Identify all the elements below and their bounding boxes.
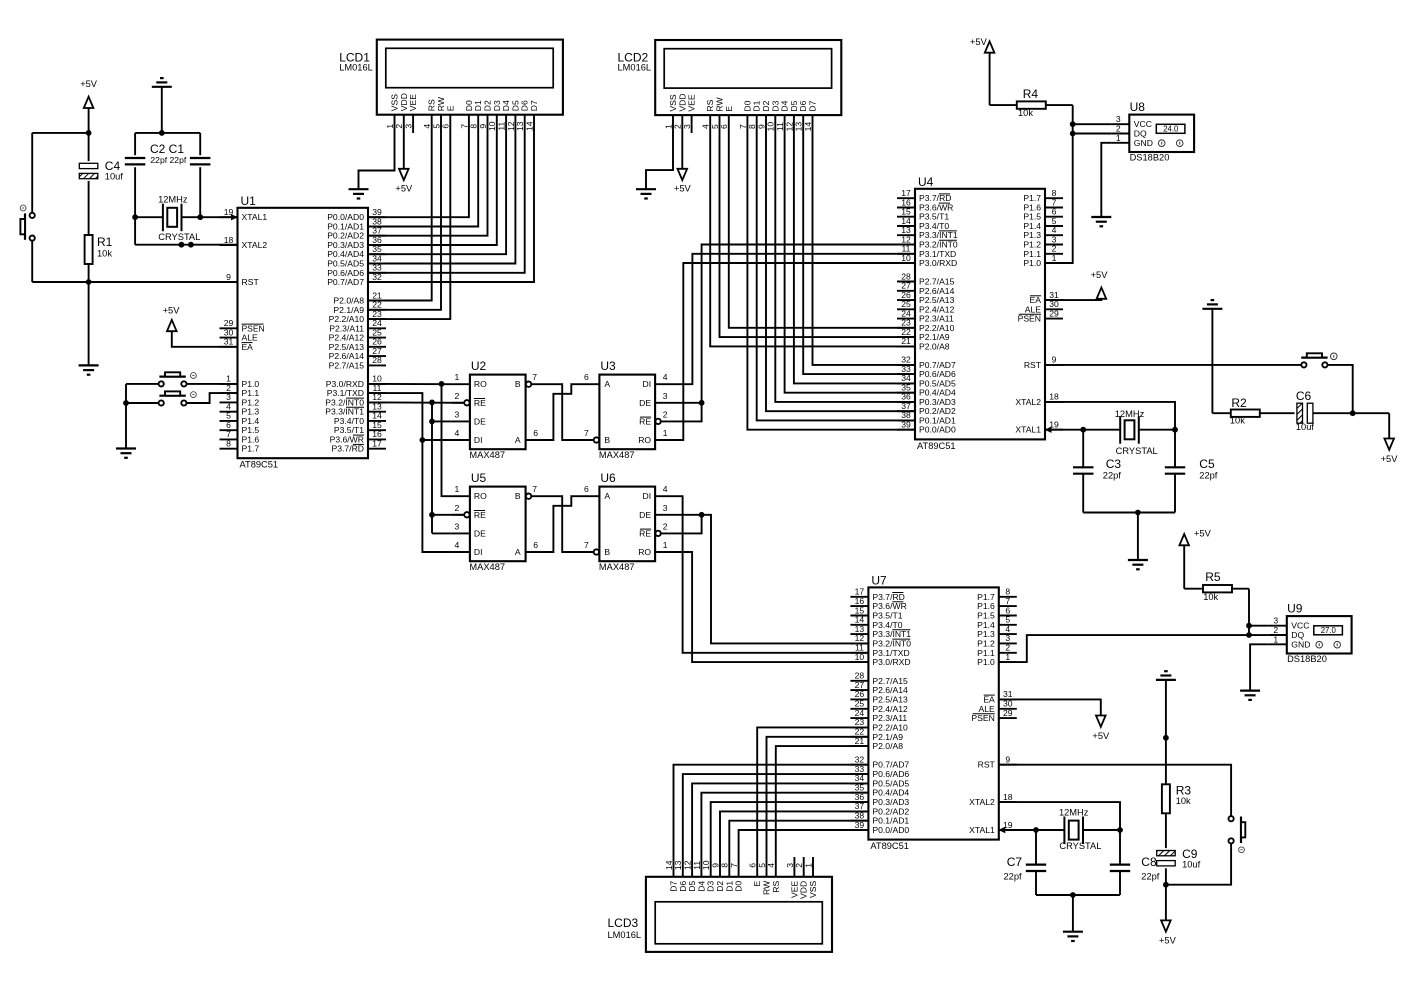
- svg-text:U8: U8: [1130, 100, 1146, 114]
- svg-text:18: 18: [1003, 792, 1013, 802]
- svg-text:22pf: 22pf: [1141, 871, 1160, 881]
- svg-text:14: 14: [664, 860, 674, 870]
- svg-text:14: 14: [803, 122, 813, 132]
- svg-text:3: 3: [404, 124, 414, 129]
- svg-text:E: E: [724, 106, 734, 112]
- svg-text:R4: R4: [1023, 87, 1039, 101]
- svg-text:28: 28: [372, 355, 382, 365]
- svg-text:+5V: +5V: [674, 184, 692, 194]
- svg-text:22pf 22pf: 22pf 22pf: [150, 155, 186, 165]
- svg-text:10k: 10k: [97, 249, 112, 259]
- svg-text:B: B: [604, 547, 610, 557]
- svg-text:XTAL2: XTAL2: [969, 797, 995, 807]
- svg-text:1: 1: [663, 428, 668, 438]
- svg-text:3: 3: [455, 521, 460, 531]
- svg-text:22pf: 22pf: [1199, 471, 1218, 481]
- svg-text:RST: RST: [978, 760, 996, 770]
- svg-text:RST: RST: [242, 277, 260, 287]
- svg-text:P1.0: P1.0: [977, 657, 995, 667]
- svg-text:P0.7/AD7: P0.7/AD7: [327, 277, 364, 287]
- svg-text:29: 29: [1003, 708, 1013, 718]
- svg-text:10uf: 10uf: [105, 171, 124, 181]
- svg-text:13: 13: [673, 860, 683, 870]
- svg-text:MAX487: MAX487: [469, 450, 505, 460]
- svg-text:P0.0/AD0: P0.0/AD0: [919, 425, 956, 435]
- svg-text:6: 6: [533, 428, 538, 438]
- svg-text:C5: C5: [1199, 457, 1215, 471]
- svg-text:RO: RO: [474, 491, 487, 501]
- svg-text:8: 8: [720, 863, 730, 868]
- svg-text:XTAL1: XTAL1: [969, 825, 995, 835]
- svg-text:+5V: +5V: [163, 305, 181, 315]
- svg-text:+5V: +5V: [80, 79, 98, 89]
- svg-text:11: 11: [692, 861, 702, 870]
- svg-text:9: 9: [1052, 355, 1057, 365]
- svg-text:+5V: +5V: [1381, 454, 1399, 464]
- svg-text:LM016L: LM016L: [339, 63, 373, 73]
- svg-text:XTAL2: XTAL2: [242, 240, 268, 250]
- svg-text:3: 3: [455, 409, 460, 419]
- svg-text:A: A: [515, 547, 521, 557]
- svg-text:GND: GND: [1134, 138, 1153, 148]
- svg-text:P2.0/A8: P2.0/A8: [919, 341, 950, 351]
- svg-text:DE: DE: [639, 510, 651, 520]
- svg-text:VEE: VEE: [408, 94, 418, 111]
- svg-text:U9: U9: [1287, 602, 1303, 616]
- svg-text:10k: 10k: [1203, 592, 1218, 602]
- svg-text:P1.7: P1.7: [242, 444, 260, 454]
- svg-text:CRYSTAL: CRYSTAL: [1059, 841, 1101, 851]
- svg-text:U7: U7: [871, 573, 887, 587]
- svg-text:17: 17: [372, 439, 382, 449]
- svg-text:D0: D0: [734, 881, 744, 892]
- svg-text:2: 2: [455, 391, 460, 401]
- svg-text:LM016L: LM016L: [608, 930, 642, 940]
- svg-text:10k: 10k: [1230, 415, 1245, 425]
- svg-text:3: 3: [663, 391, 668, 401]
- svg-text:+5V: +5V: [1091, 270, 1109, 280]
- svg-text:AT89C51: AT89C51: [917, 441, 956, 451]
- svg-text:+5V: +5V: [395, 184, 413, 194]
- svg-text:A: A: [604, 491, 610, 501]
- svg-text:MAX487: MAX487: [469, 562, 505, 572]
- svg-text:P2.0/A8: P2.0/A8: [872, 741, 903, 751]
- svg-text:22pf: 22pf: [1103, 471, 1122, 481]
- svg-text:10k: 10k: [1176, 796, 1191, 806]
- svg-text:D7: D7: [529, 100, 539, 111]
- svg-text:10: 10: [701, 860, 711, 870]
- svg-text:VSS: VSS: [808, 881, 818, 898]
- svg-text:2: 2: [794, 863, 804, 868]
- svg-text:XTAL1: XTAL1: [242, 212, 268, 222]
- svg-text:10uf: 10uf: [1182, 860, 1201, 870]
- svg-text:RW: RW: [762, 880, 772, 895]
- svg-text:U4: U4: [918, 175, 934, 189]
- svg-text:C8: C8: [1141, 855, 1157, 869]
- svg-text:P1.0: P1.0: [1023, 258, 1041, 268]
- svg-text:DE: DE: [639, 398, 651, 408]
- svg-text:6: 6: [441, 124, 451, 129]
- svg-text:U3: U3: [600, 359, 616, 373]
- svg-text:D7: D7: [669, 881, 679, 892]
- svg-text:6: 6: [584, 372, 589, 382]
- svg-text:RST: RST: [1024, 360, 1042, 370]
- svg-text:D7: D7: [808, 100, 818, 111]
- svg-text:+5V: +5V: [1159, 935, 1177, 945]
- svg-text:P0.0/AD0: P0.0/AD0: [872, 825, 909, 835]
- svg-text:AT89C51: AT89C51: [240, 460, 279, 470]
- svg-text:RE: RE: [474, 510, 486, 520]
- svg-text:4: 4: [455, 428, 460, 438]
- svg-text:A: A: [604, 379, 610, 389]
- svg-text:2: 2: [663, 521, 668, 531]
- svg-text:DI: DI: [643, 491, 652, 501]
- svg-text:8: 8: [226, 439, 231, 449]
- svg-text:4: 4: [455, 540, 460, 550]
- svg-text:R1: R1: [97, 235, 113, 249]
- svg-text:C3: C3: [1106, 457, 1122, 471]
- svg-text:LCD3: LCD3: [608, 916, 639, 930]
- svg-text:RE: RE: [639, 416, 651, 426]
- svg-text:XTAL2: XTAL2: [1015, 397, 1041, 407]
- svg-text:VDD: VDD: [799, 881, 809, 899]
- svg-text:P3.0/RXD: P3.0/RXD: [919, 258, 957, 268]
- svg-text:A: A: [515, 435, 521, 445]
- svg-text:18: 18: [224, 235, 234, 245]
- svg-text:D4: D4: [696, 881, 706, 892]
- svg-text:GND: GND: [1291, 639, 1310, 649]
- svg-text:R5: R5: [1205, 570, 1221, 584]
- svg-text:6: 6: [748, 863, 758, 868]
- svg-text:U5: U5: [471, 471, 487, 485]
- svg-text:DS18B20: DS18B20: [1130, 152, 1170, 162]
- svg-text:9: 9: [710, 863, 720, 868]
- svg-text:AT89C51: AT89C51: [870, 841, 909, 851]
- svg-text:3: 3: [785, 863, 795, 868]
- svg-text:4: 4: [663, 372, 668, 382]
- svg-text:B: B: [515, 491, 521, 501]
- svg-text:RE: RE: [639, 528, 651, 538]
- svg-text:C7: C7: [1007, 855, 1023, 869]
- svg-text:22pf: 22pf: [1004, 871, 1023, 881]
- svg-text:EA: EA: [242, 342, 254, 352]
- svg-text:24.0: 24.0: [1163, 125, 1179, 134]
- svg-text:CRYSTAL: CRYSTAL: [158, 232, 200, 242]
- svg-text:7: 7: [729, 863, 739, 868]
- svg-text:VEE: VEE: [687, 94, 697, 111]
- svg-text:XTAL1: XTAL1: [1015, 425, 1041, 435]
- svg-text:3: 3: [682, 124, 692, 129]
- svg-text:7: 7: [532, 484, 537, 494]
- svg-text:7: 7: [532, 372, 537, 382]
- svg-text:2: 2: [663, 409, 668, 419]
- svg-text:RO: RO: [474, 379, 487, 389]
- svg-text:VEE: VEE: [789, 881, 799, 898]
- svg-text:1: 1: [803, 863, 813, 868]
- svg-text:1: 1: [1273, 634, 1278, 644]
- svg-text:29: 29: [1049, 308, 1059, 318]
- svg-text:DE: DE: [474, 528, 486, 538]
- svg-text:MAX487: MAX487: [599, 450, 635, 460]
- svg-text:U1: U1: [241, 194, 257, 208]
- svg-text:6: 6: [719, 124, 729, 129]
- svg-text:1: 1: [663, 540, 668, 550]
- svg-text:7: 7: [584, 540, 589, 550]
- svg-text:E: E: [752, 881, 762, 887]
- svg-text:P3.7/RD: P3.7/RD: [332, 444, 364, 454]
- svg-text:12MHz: 12MHz: [158, 195, 188, 205]
- svg-text:RE: RE: [474, 398, 486, 408]
- svg-text:10uf: 10uf: [1296, 422, 1315, 432]
- svg-text:P3.0/RXD: P3.0/RXD: [872, 657, 910, 667]
- svg-text:1: 1: [455, 484, 460, 494]
- svg-text:PSEN: PSEN: [1018, 314, 1041, 324]
- svg-text:12MHz: 12MHz: [1059, 808, 1089, 818]
- svg-text:PSEN: PSEN: [971, 713, 994, 723]
- svg-text:CRYSTAL: CRYSTAL: [1116, 446, 1158, 456]
- svg-text:12MHz: 12MHz: [1115, 409, 1145, 419]
- svg-text:2: 2: [455, 503, 460, 513]
- svg-text:C6: C6: [1296, 389, 1312, 403]
- svg-text:RO: RO: [638, 435, 651, 445]
- svg-text:C2 C1: C2 C1: [150, 142, 184, 156]
- svg-text:5: 5: [757, 863, 767, 868]
- svg-text:RO: RO: [638, 547, 651, 557]
- svg-text:1: 1: [1005, 652, 1010, 662]
- svg-text:3: 3: [663, 503, 668, 513]
- svg-text:E: E: [445, 105, 455, 111]
- svg-text:DI: DI: [474, 547, 483, 557]
- svg-text:DI: DI: [474, 435, 483, 445]
- svg-text:R2: R2: [1231, 396, 1247, 410]
- svg-text:U6: U6: [600, 471, 616, 485]
- svg-text:+5V: +5V: [1092, 731, 1110, 741]
- svg-text:MAX487: MAX487: [599, 562, 635, 572]
- svg-text:27.0: 27.0: [1321, 626, 1337, 635]
- svg-text:LM016L: LM016L: [618, 63, 652, 73]
- svg-text:9: 9: [226, 272, 231, 282]
- svg-text:4: 4: [663, 484, 668, 494]
- svg-text:B: B: [515, 379, 521, 389]
- svg-text:6: 6: [584, 484, 589, 494]
- svg-text:P2.7/A15: P2.7/A15: [329, 360, 365, 370]
- svg-text:7: 7: [584, 428, 589, 438]
- svg-text:1: 1: [455, 372, 460, 382]
- svg-text:+5V: +5V: [970, 37, 988, 47]
- svg-text:DE: DE: [474, 416, 486, 426]
- svg-text:10k: 10k: [1018, 108, 1033, 118]
- svg-text:9: 9: [1005, 755, 1010, 765]
- svg-text:D6: D6: [678, 881, 688, 892]
- svg-text:31: 31: [224, 337, 234, 347]
- svg-text:6: 6: [533, 540, 538, 550]
- svg-text:4: 4: [766, 863, 776, 868]
- svg-text:1: 1: [1116, 133, 1121, 143]
- svg-text:DI: DI: [643, 379, 652, 389]
- svg-text:18: 18: [1049, 392, 1059, 402]
- svg-text:U2: U2: [471, 359, 487, 373]
- svg-text:D2: D2: [715, 881, 725, 892]
- svg-text:D5: D5: [687, 881, 697, 892]
- svg-text:D3: D3: [706, 881, 716, 892]
- svg-text:RS: RS: [771, 881, 781, 893]
- svg-text:+5V: +5V: [1194, 529, 1212, 539]
- svg-text:12: 12: [683, 860, 693, 870]
- svg-text:1: 1: [1052, 253, 1057, 263]
- svg-text:B: B: [604, 435, 610, 445]
- svg-text:14: 14: [524, 121, 534, 131]
- svg-text:DS18B20: DS18B20: [1287, 654, 1327, 664]
- svg-text:D1: D1: [724, 881, 734, 892]
